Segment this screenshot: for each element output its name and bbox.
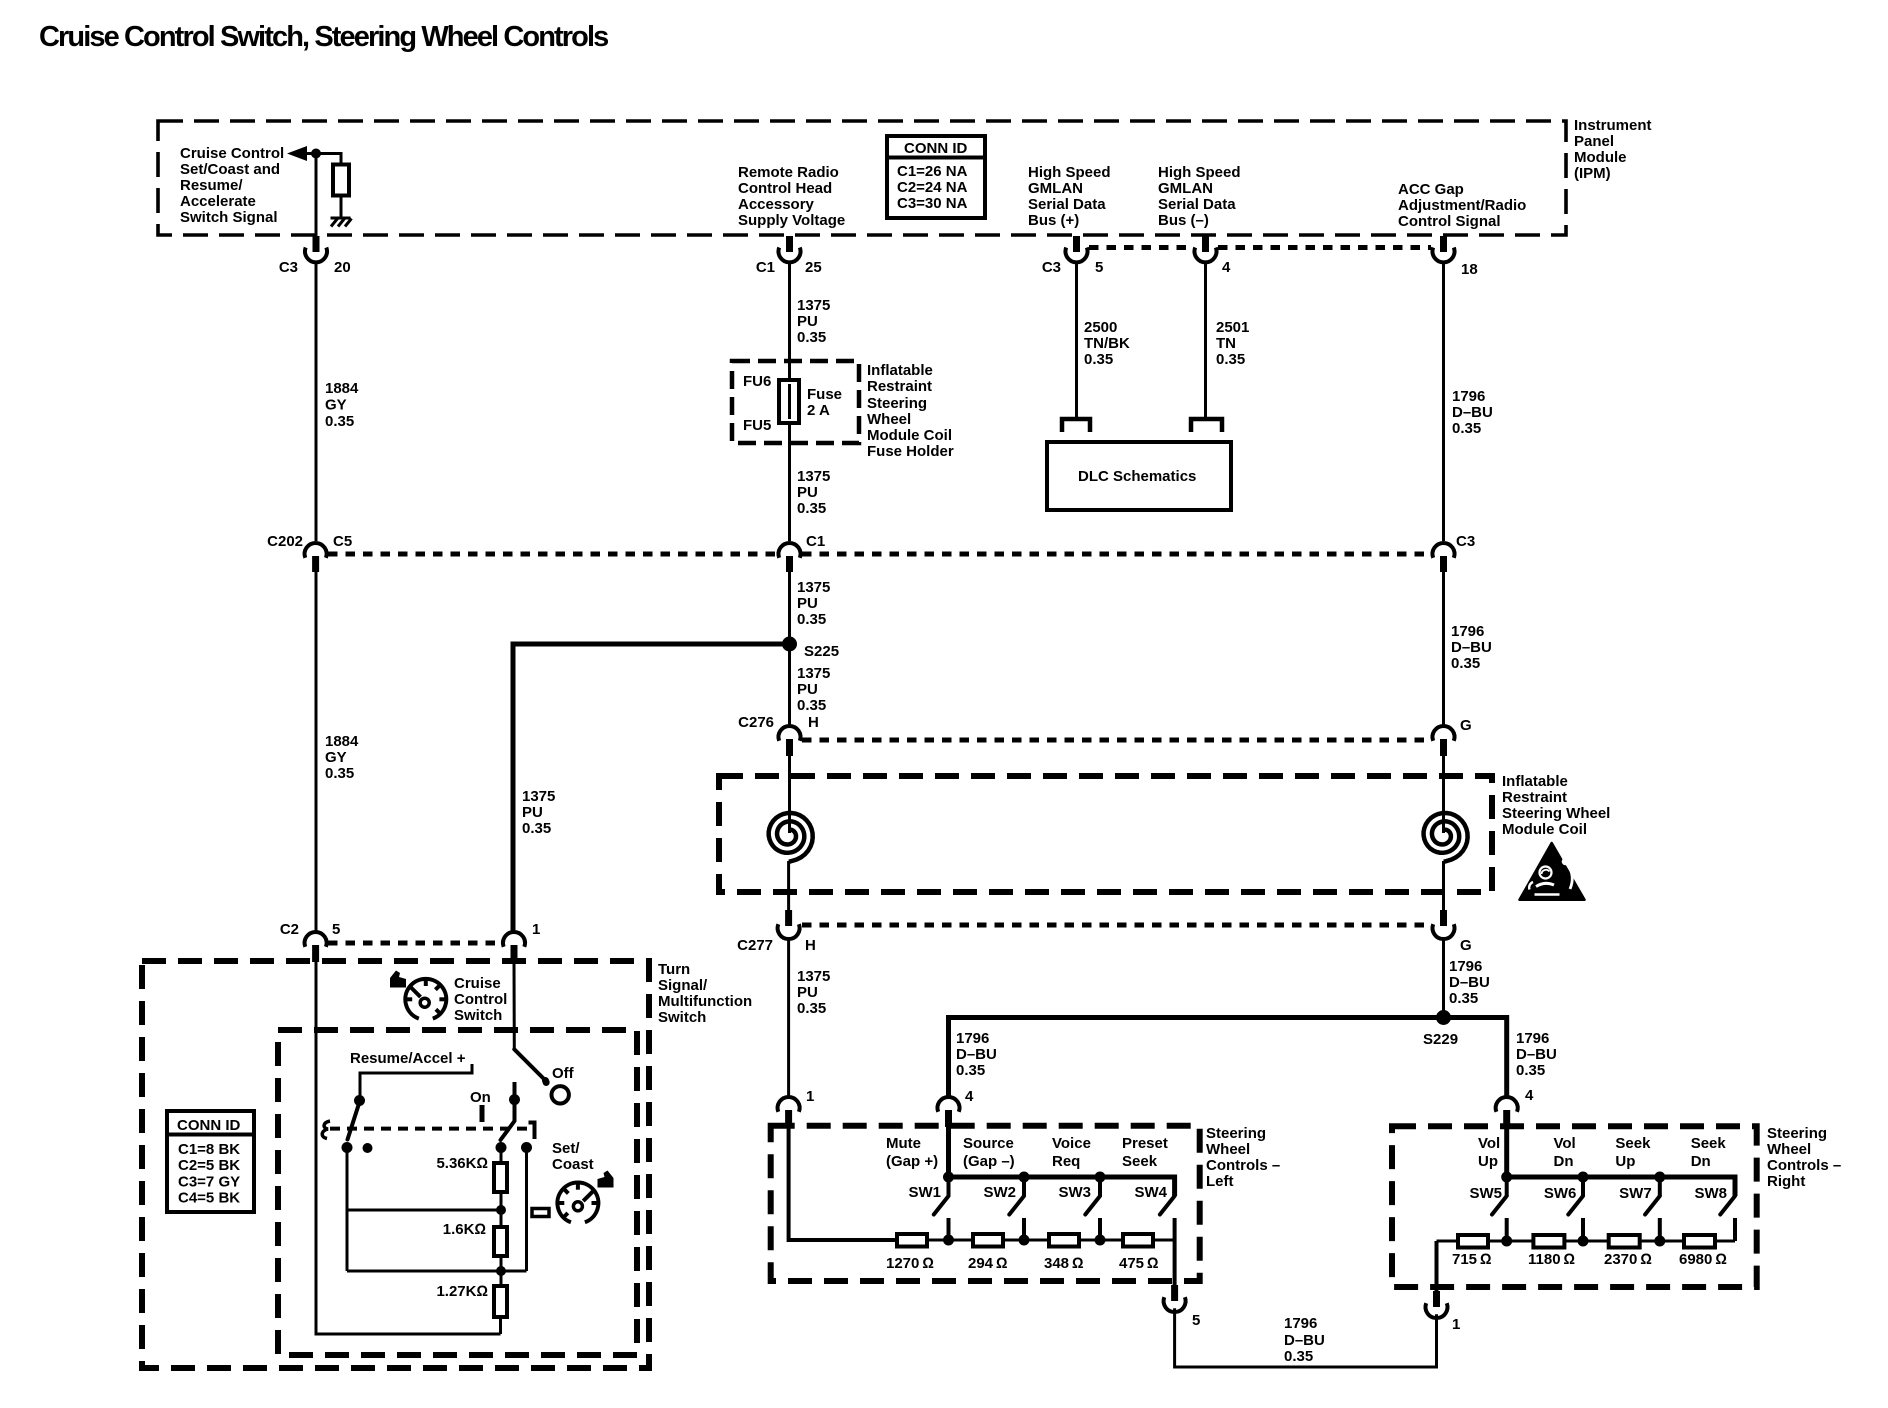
svg-text:PU: PU: [797, 681, 818, 698]
resistor 1.6K: [494, 1227, 507, 1256]
svg-text:Module Coil: Module Coil: [1502, 821, 1587, 838]
wire 1796 D-BU C202 to G: [1442, 570, 1445, 726]
chain wire 715 to SW5: [1488, 1240, 1533, 1243]
svg-text:Module: Module: [1574, 149, 1627, 166]
label Seek Dn: [1691, 1135, 1727, 1170]
svg-text:SW2: SW2: [983, 1184, 1016, 1201]
connector C2 pin 1: [503, 921, 540, 962]
svg-text:5.36KΩ: 5.36KΩ: [436, 1155, 488, 1172]
wire 1796 D-BU from pin 18: [1442, 263, 1445, 541]
on contact stub: [513, 1082, 517, 1121]
svg-text:0.35: 0.35: [325, 765, 354, 782]
svg-text:C1: C1: [806, 533, 825, 550]
svg-text:1375: 1375: [797, 297, 830, 314]
svg-text:1.6KΩ: 1.6KΩ: [443, 1221, 486, 1238]
svg-text:1796: 1796: [1516, 1030, 1549, 1047]
svg-text:0.35: 0.35: [1084, 351, 1113, 368]
wire 1375 PU from C1 to fuse: [788, 263, 791, 380]
label Fuse 2 A: [807, 386, 842, 419]
svg-text:Switch: Switch: [454, 1007, 502, 1024]
svg-text:High Speed: High Speed: [1158, 164, 1241, 181]
svg-text:PU: PU: [797, 484, 818, 501]
label Inflatable Restraint Steering Wheel Module Coil: [1502, 773, 1610, 838]
svg-text:2500: 2500: [1084, 319, 1117, 336]
svg-text:4: 4: [1222, 259, 1231, 276]
svg-text:C4=5 BK: C4=5 BK: [178, 1190, 240, 1207]
svg-text:D–BU: D–BU: [956, 1046, 997, 1063]
svg-text:Resume/Accel +: Resume/Accel +: [350, 1050, 466, 1067]
svg-text:Accelerate: Accelerate: [180, 193, 256, 210]
svg-text:0.35: 0.35: [1451, 655, 1480, 672]
switch SW6: [1568, 1177, 1583, 1240]
connector C202 C1: [779, 533, 826, 572]
wire 4 feed into left box: [946, 1127, 951, 1177]
svg-text:Left: Left: [1206, 1173, 1234, 1190]
svg-text:Steering Wheel: Steering Wheel: [1502, 805, 1610, 822]
svg-text:Control Head: Control Head: [738, 180, 832, 197]
svg-text:18: 18: [1461, 261, 1478, 278]
label wire 1884 GY 0.35 lower: [325, 733, 359, 782]
bus node SW3: [1095, 1172, 1106, 1183]
svg-text:2 A: 2 A: [807, 402, 830, 419]
label Set/Coast: [552, 1140, 594, 1173]
switch SW8: [1720, 1196, 1735, 1241]
wire 1.27K to bottom rail: [499, 1317, 502, 1334]
connector 1 bottom right: [1426, 1291, 1461, 1333]
wire resistor to ground: [340, 196, 343, 218]
svg-text:Remote Radio: Remote Radio: [738, 164, 839, 181]
connector C3 pin 4 at IPM: [1195, 236, 1232, 276]
CONN ID table (IPM): [887, 136, 985, 218]
label wire 1796 D-BU 0.35 (below G): [1449, 958, 1490, 1007]
svg-text:1796: 1796: [956, 1030, 989, 1047]
connector C1 pin 25 at IPM: [756, 236, 822, 276]
label Mute (Gap +): [886, 1135, 938, 1170]
svg-text:0.35: 0.35: [1284, 1348, 1313, 1365]
svg-text:C3: C3: [279, 259, 298, 276]
resistor 715: [1458, 1235, 1488, 1248]
resistor 1180: [1533, 1235, 1564, 1248]
switch top bus left box: [949, 1177, 1175, 1196]
svg-text:Set/: Set/: [552, 1140, 580, 1157]
svg-text:C1=8 BK: C1=8 BK: [178, 1141, 240, 1158]
chain node SW3: [1095, 1235, 1106, 1246]
svg-text:D–BU: D–BU: [1451, 639, 1492, 656]
wire 1884 GY upper segment: [315, 263, 318, 541]
dotted connector line C2 switch: [328, 941, 502, 946]
wire tee down to C3 pin 20: [315, 154, 318, 237]
svg-text:D–BU: D–BU: [1284, 1332, 1325, 1349]
switch SW5: [1492, 1177, 1507, 1240]
wire chain down to 1 right: [1435, 1241, 1439, 1296]
svg-text:On: On: [470, 1089, 491, 1106]
switch SW3: [1085, 1177, 1100, 1240]
svg-text:0.35: 0.35: [522, 820, 551, 837]
svg-text:Turn: Turn: [658, 961, 690, 978]
chain node SW1: [943, 1235, 954, 1246]
label High Speed GMLAN Serial Data Bus (+): [1028, 164, 1111, 229]
resistor 1.27K: [494, 1286, 507, 1317]
svg-text:(Gap +): (Gap +): [886, 1153, 938, 1170]
bus node SW1: [943, 1172, 954, 1183]
dotted connector line C277: [802, 923, 1431, 928]
connector C202 C5: [267, 533, 352, 572]
on position tick: [480, 1105, 485, 1122]
svg-text:Serial Data: Serial Data: [1028, 196, 1106, 213]
connector C3 pin 5 at IPM: [1042, 236, 1104, 276]
dotted connector line C3 IPM: [1089, 245, 1431, 250]
resistor 1270: [897, 1234, 927, 1247]
svg-text:Mute: Mute: [886, 1135, 921, 1152]
label Source (Gap -): [963, 1135, 1015, 1170]
svg-text:1: 1: [806, 1088, 814, 1105]
svg-text:Instrument: Instrument: [1574, 117, 1652, 134]
svg-text:Switch: Switch: [658, 1009, 706, 1026]
svg-text:Serial Data: Serial Data: [1158, 196, 1236, 213]
svg-text:0.35: 0.35: [1452, 420, 1481, 437]
cruise icon arrow: [390, 971, 406, 988]
resistor 348: [1049, 1234, 1079, 1247]
svg-text:1.27KΩ: 1.27KΩ: [436, 1283, 488, 1300]
set icon needle hub: [573, 1202, 582, 1211]
svg-text:Panel: Panel: [1574, 133, 1614, 150]
label Voice Req: [1052, 1135, 1091, 1170]
label wire 1375 PU 0.35 (below S225): [797, 665, 830, 714]
svg-text:CONN ID: CONN ID: [177, 1117, 241, 1134]
svg-text:DLC Schematics: DLC Schematics: [1078, 468, 1196, 485]
svg-text:C3: C3: [1456, 533, 1475, 550]
wire 1375 PU C277 to steering left: [787, 939, 790, 1097]
page link bracket left: [1062, 419, 1090, 432]
svg-text:Wheel: Wheel: [1767, 1141, 1811, 1158]
Inflatable Restraint Steering Wheel Module Coil box: [719, 776, 1492, 892]
svg-text:25: 25: [805, 259, 822, 276]
svg-text:Fuse Holder: Fuse Holder: [867, 443, 954, 460]
svg-text:Vol: Vol: [1478, 1135, 1500, 1152]
dotted connector line C276: [802, 738, 1431, 743]
svg-text:0.35: 0.35: [956, 1062, 985, 1079]
resistor 5.36K: [494, 1163, 507, 1192]
Steering Wheel Controls Left box: [771, 1126, 1200, 1281]
chain wire 1180 to SW6: [1564, 1240, 1608, 1243]
wire into right coil: [1442, 756, 1445, 833]
svg-text:5: 5: [1192, 1312, 1200, 1329]
chain node SW7: [1654, 1236, 1665, 1247]
wire 1884 GY lower segment: [315, 570, 318, 931]
svg-text:PU: PU: [797, 984, 818, 1001]
label Inflatable Restraint Steering Wheel Module Coil Fuse Holder: [867, 362, 954, 460]
connector 1 steering left: [778, 1088, 815, 1127]
svg-text:ACC Gap: ACC Gap: [1398, 181, 1464, 198]
svg-text:Wheel: Wheel: [867, 411, 911, 428]
connector C276 G: [1433, 717, 1472, 756]
wire 2500 TN/BK: [1075, 263, 1078, 419]
label wire 2500 TN/BK 0.35: [1084, 319, 1130, 368]
label Turn Signal/Multifunction Switch: [658, 961, 752, 1026]
resistor 294: [973, 1234, 1003, 1247]
wire out of left coil: [787, 861, 790, 910]
resume pivot dot: [354, 1095, 365, 1106]
label wire 1884 GY 0.35 upper: [325, 380, 359, 430]
wire S229 branch left to 4: [949, 1018, 1444, 1098]
svg-text:1: 1: [532, 921, 540, 938]
svg-text:Seek: Seek: [1691, 1135, 1727, 1152]
svg-text:SW4: SW4: [1134, 1184, 1167, 1201]
svg-text:Coast: Coast: [552, 1156, 594, 1173]
svg-text:SW8: SW8: [1694, 1185, 1727, 1202]
svg-text:2370 Ω: 2370 Ω: [1604, 1251, 1652, 1268]
wire 1375 PU C202 to S225: [788, 570, 791, 644]
chain node SW5: [1501, 1236, 1512, 1247]
svg-text:0.35: 0.35: [1449, 990, 1478, 1007]
svg-text:Controls –: Controls –: [1767, 1157, 1841, 1174]
svg-text:GMLAN: GMLAN: [1158, 180, 1213, 197]
svg-text:Voice: Voice: [1052, 1135, 1091, 1152]
svg-text:Cruise Control Switch, Steerin: Cruise Control Switch, Steering Wheel Co…: [39, 21, 608, 53]
on pivot dot: [509, 1094, 520, 1105]
label Steering Wheel Controls - Right: [1767, 1125, 1841, 1190]
dotted connector line C202: [328, 552, 1431, 557]
cruise control gauge icon: [405, 979, 446, 1019]
svg-text:Req: Req: [1052, 1153, 1080, 1170]
svg-text:C2=5 BK: C2=5 BK: [178, 1157, 240, 1174]
switch SW7: [1645, 1177, 1660, 1240]
svg-text:GMLAN: GMLAN: [1028, 180, 1083, 197]
svg-text:0.35: 0.35: [797, 611, 826, 628]
svg-text:G: G: [1460, 937, 1472, 954]
svg-text:Dn: Dn: [1691, 1153, 1711, 1170]
svg-text:Seek: Seek: [1122, 1153, 1158, 1170]
bus node SW6: [1578, 1172, 1589, 1183]
svg-text:Multifunction: Multifunction: [658, 993, 752, 1010]
svg-text:TN/BK: TN/BK: [1084, 335, 1130, 352]
svg-text:Vol: Vol: [1554, 1135, 1576, 1152]
svg-text:Signal/: Signal/: [658, 977, 708, 994]
label Vol Up: [1478, 1135, 1500, 1170]
svg-text:0.35: 0.35: [1216, 351, 1245, 368]
svg-text:1375: 1375: [797, 968, 830, 985]
svg-text:6980 Ω: 6980 Ω: [1679, 1251, 1727, 1268]
svg-text:294 Ω: 294 Ω: [968, 1255, 1008, 1272]
svg-text:1375: 1375: [797, 665, 830, 682]
svg-text:Control Signal: Control Signal: [1398, 213, 1501, 230]
off blade tip: [542, 1081, 550, 1083]
svg-text:1796: 1796: [1284, 1315, 1317, 1332]
svg-text:FU5: FU5: [743, 417, 771, 434]
svg-text:Dn: Dn: [1554, 1153, 1574, 1170]
resistor 6980: [1684, 1235, 1715, 1248]
connector C277 H: [737, 910, 816, 954]
page link bracket right: [1191, 419, 1222, 432]
bus node SW5: [1501, 1172, 1512, 1183]
svg-text:1270 Ω: 1270 Ω: [886, 1255, 934, 1272]
svg-text:Inflatable: Inflatable: [1502, 773, 1568, 790]
svg-text:1796: 1796: [1449, 958, 1482, 975]
label wire 1796 D-BU 0.35 (top): [1452, 388, 1493, 437]
CONN ID table (switch): [167, 1111, 254, 1212]
mechanical link spring end: [322, 1121, 330, 1139]
svg-text:Cruise Control: Cruise Control: [180, 145, 284, 162]
wire 4 feed into right box: [1504, 1127, 1509, 1177]
svg-text:High Speed: High Speed: [1028, 164, 1111, 181]
svg-text:1180 Ω: 1180 Ω: [1528, 1251, 1575, 1268]
svg-text:Preset: Preset: [1122, 1135, 1168, 1152]
off contact ring: [552, 1086, 569, 1103]
coil left (clockspring): [769, 813, 813, 862]
off blade: [514, 1049, 545, 1080]
svg-text:1884: 1884: [325, 380, 359, 397]
svg-text:1375: 1375: [797, 579, 830, 596]
chain wire 1270 to SW1: [927, 1239, 973, 1242]
set icon arrow: [598, 1171, 614, 1188]
svg-text:Bus (+): Bus (+): [1028, 212, 1079, 229]
svg-text:Module Coil: Module Coil: [867, 427, 952, 444]
svg-text:475 Ω: 475 Ω: [1119, 1255, 1159, 1272]
connector C3 pin 20 at IPM: [279, 236, 351, 276]
wire between 1.6K and node 2: [500, 1256, 503, 1286]
ladder left rail: [346, 1150, 349, 1271]
svg-text:C202: C202: [267, 533, 303, 550]
svg-text:Seek: Seek: [1615, 1135, 1651, 1152]
label wire 1375 PU 0.35 (below C202): [797, 579, 830, 628]
label wire 1375 PU 0.35 (branch): [522, 788, 555, 837]
svg-text:S229: S229: [1423, 1031, 1458, 1048]
chain wire 6980 to SW8: [1715, 1240, 1735, 1243]
splice S225: [782, 637, 839, 661]
svg-text:Controls –: Controls –: [1206, 1157, 1280, 1174]
wire out of right coil: [1442, 861, 1445, 910]
svg-text:Fuse: Fuse: [807, 386, 842, 403]
svg-text:C3=30 NA: C3=30 NA: [897, 195, 968, 212]
contact dot set alt: [521, 1142, 532, 1153]
label Cruise Control Set/Coast and Resume/Accelerate Switch Signal: [180, 145, 284, 226]
label wire 1375 PU 0.35 (below C277): [797, 968, 830, 1017]
resistor 2370: [1609, 1235, 1640, 1248]
svg-text:Control: Control: [454, 991, 507, 1008]
connector C3 pin 18 at IPM: [1433, 236, 1478, 278]
svg-text:0.35: 0.35: [797, 329, 826, 346]
wire between 5.36K and node: [500, 1192, 503, 1227]
resistor 475: [1123, 1234, 1153, 1247]
set/coast indicator bar: [532, 1209, 549, 1217]
svg-text:PU: PU: [522, 804, 543, 821]
svg-text:715 Ω: 715 Ω: [1452, 1251, 1492, 1268]
node dot 2: [496, 1266, 506, 1276]
node dot 1: [496, 1205, 506, 1215]
svg-text:G: G: [1460, 717, 1472, 734]
switch SW1: [934, 1177, 949, 1240]
connector C276 H: [738, 714, 819, 756]
node dot at tee: [311, 149, 321, 159]
connector 4 steering left: [938, 1088, 975, 1127]
svg-text:C1=26 NA: C1=26 NA: [897, 163, 968, 180]
DLC Schematics box: [1047, 442, 1231, 510]
connector 5 bottom: [1164, 1285, 1201, 1329]
chain wire 475 to SW4 corner: [1153, 1239, 1175, 1242]
wire S229 branch right to 4: [1444, 1018, 1507, 1100]
ladder rung 1: [347, 1209, 501, 1212]
arrow into Cruise Control signal: [287, 146, 307, 161]
label High Speed GMLAN Serial Data Bus (-): [1158, 164, 1241, 229]
connector 4 steering right: [1496, 1087, 1534, 1127]
svg-text:Bus (–): Bus (–): [1158, 212, 1209, 229]
svg-text:Inflatable: Inflatable: [867, 362, 933, 379]
mechanical link dashed: [330, 1127, 528, 1131]
wire 1375 PU S225 to C276: [788, 644, 791, 726]
svg-text:1796: 1796: [1451, 623, 1484, 640]
svg-text:SW5: SW5: [1469, 1185, 1502, 1202]
svg-text:0.35: 0.35: [797, 697, 826, 714]
fuse element 2 A: [779, 380, 799, 423]
svg-text:0.35: 0.35: [1516, 1062, 1545, 1079]
svg-text:C276: C276: [738, 714, 774, 731]
contact dot left: [342, 1142, 353, 1153]
svg-text:FU6: FU6: [743, 373, 771, 390]
svg-text:0.35: 0.35: [797, 1000, 826, 1017]
connector C202 C3: [1433, 533, 1476, 572]
connector C277 G: [1433, 910, 1472, 954]
ground symbol: [331, 218, 352, 227]
splice S229: [1423, 1010, 1458, 1048]
svg-text:Restraint: Restraint: [867, 378, 932, 395]
svg-text:SW6: SW6: [1544, 1185, 1577, 1202]
warning triangle SIR: [1520, 843, 1585, 900]
resistor (pull-up) in IPM: [333, 165, 349, 196]
label Seek Up: [1615, 1135, 1651, 1170]
svg-text:Restraint: Restraint: [1502, 789, 1567, 806]
svg-text:C1: C1: [756, 259, 775, 276]
svg-text:5: 5: [1095, 259, 1103, 276]
svg-text:Right: Right: [1767, 1173, 1805, 1190]
svg-text:Steering: Steering: [867, 395, 927, 412]
svg-text:H: H: [808, 714, 819, 731]
svg-text:PU: PU: [797, 313, 818, 330]
label wire 1796 D-BU 0.35 (bottom): [1284, 1315, 1325, 1365]
label Instrument Panel Module (IPM): [1574, 117, 1652, 182]
svg-text:SW3: SW3: [1058, 1184, 1091, 1201]
wire arrow to corner: [305, 154, 341, 166]
svg-text:1796: 1796: [1452, 388, 1485, 405]
label wire 1375 PU 0.35 (below fuse): [797, 468, 830, 517]
label ACC Gap Adjustment/Radio Control Signal: [1398, 181, 1526, 230]
wire 2501 TN: [1204, 263, 1207, 419]
wire 1796 D-BU G to S229: [1442, 939, 1445, 1018]
label wire 1796 D-BU 0.35 (right 4): [1516, 1030, 1557, 1079]
coil right (clockspring): [1424, 813, 1468, 862]
wire 1796 D-BU bottom run: [1175, 1308, 1437, 1367]
svg-text:1375: 1375: [522, 788, 555, 805]
svg-text:C277: C277: [737, 937, 773, 954]
svg-text:D–BU: D–BU: [1449, 974, 1490, 991]
svg-text:D–BU: D–BU: [1516, 1046, 1557, 1063]
chain start right box: [1437, 1240, 1459, 1243]
Cruise Control Switch inner box: [278, 1030, 637, 1355]
svg-text:H: H: [805, 937, 816, 954]
svg-text:D–BU: D–BU: [1452, 404, 1493, 421]
chain node SW6: [1578, 1236, 1589, 1247]
switch SW4: [1160, 1196, 1175, 1240]
chain node SW2: [1019, 1235, 1030, 1246]
svg-text:(IPM): (IPM): [1574, 165, 1611, 182]
svg-text:5: 5: [332, 921, 340, 938]
svg-text:348 Ω: 348 Ω: [1044, 1255, 1084, 1272]
label wire 1796 D-BU 0.35 (left 4): [956, 1030, 997, 1079]
chain wire 294 to SW2: [1003, 1239, 1049, 1242]
ladder rung 2: [347, 1270, 527, 1273]
resume blade: [348, 1102, 360, 1140]
label Vol Dn: [1554, 1135, 1576, 1170]
svg-text:PU: PU: [797, 595, 818, 612]
